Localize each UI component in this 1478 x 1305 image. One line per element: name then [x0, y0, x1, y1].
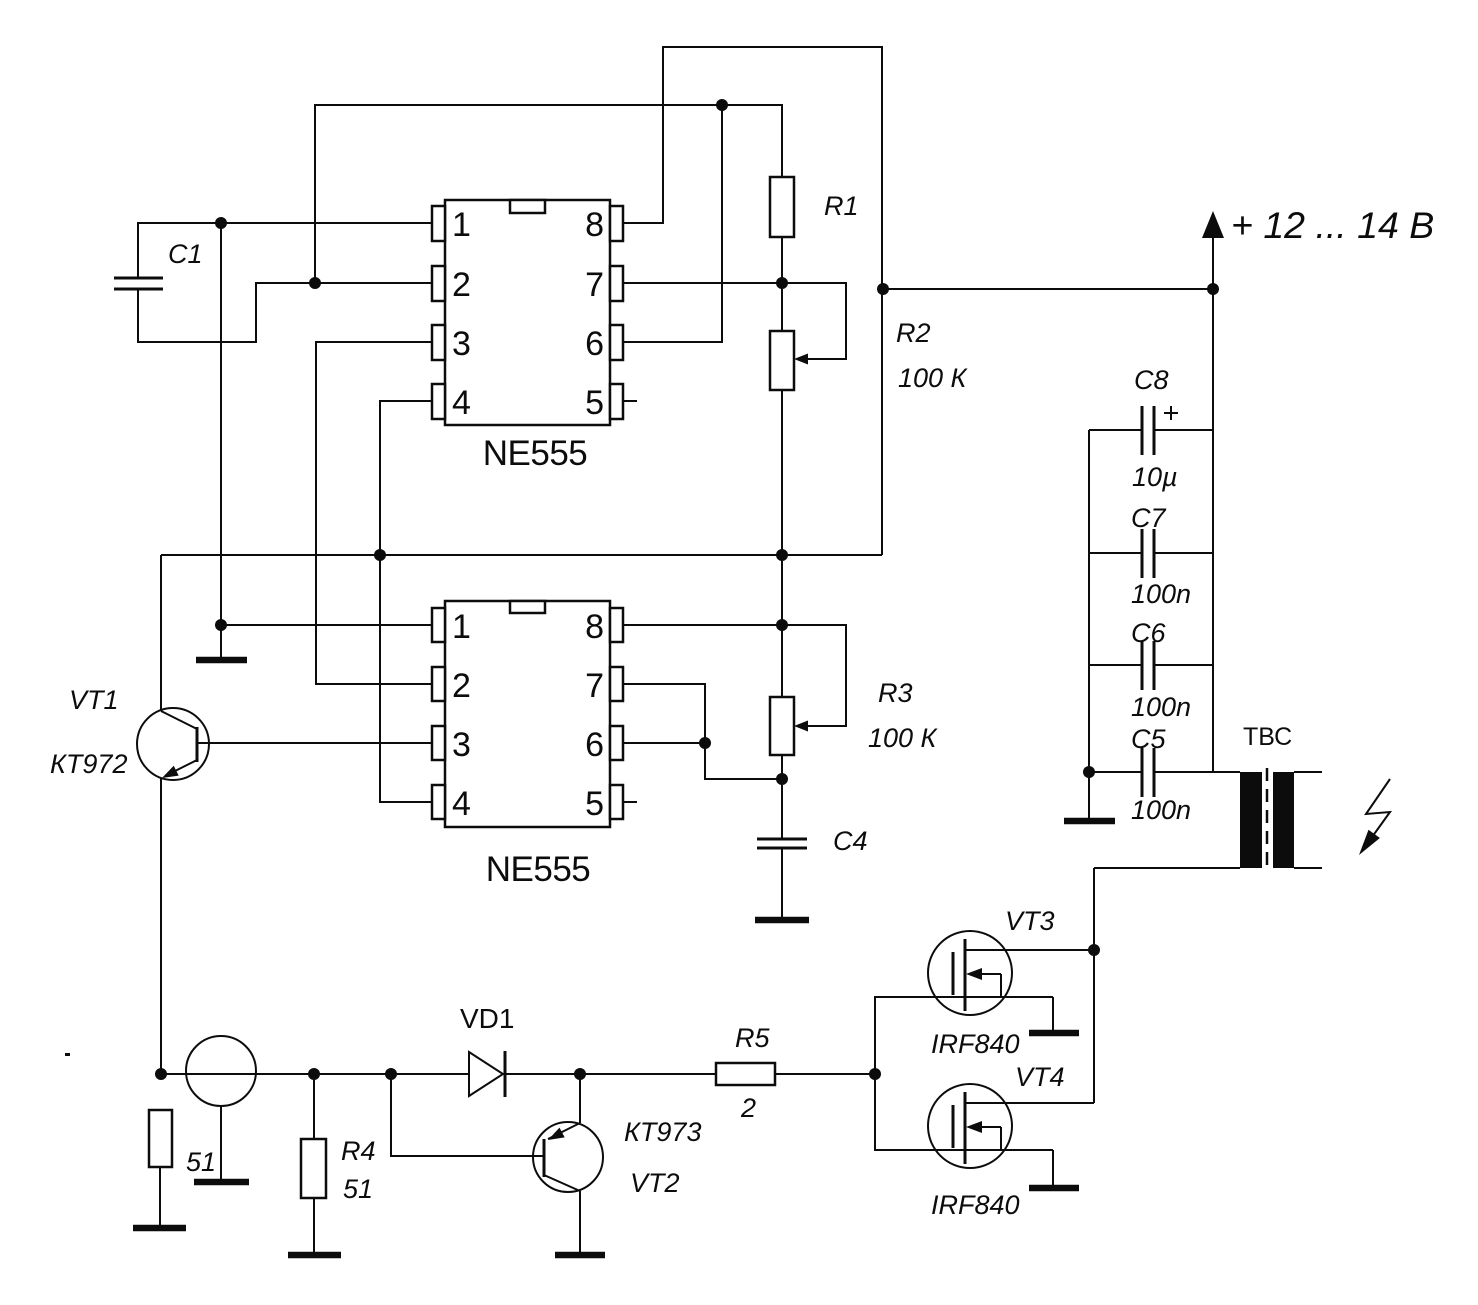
svg-text:R2: R2 — [896, 318, 931, 348]
wire gate node up to VT3 — [875, 997, 1053, 1074]
wire R2 bottom down through y=555 and pin8-lower to R3 — [781, 390, 783, 697]
svg-text:5: 5 — [585, 785, 604, 823]
svg-text:C1: C1 — [168, 239, 203, 269]
svg-text:КТ972: КТ972 — [50, 749, 127, 779]
svg-text:100 К: 100 К — [868, 723, 939, 753]
wire VT2 collector to ground — [579, 1191, 581, 1252]
wire R3 bottom to C4 — [781, 755, 783, 839]
svg-text:R5: R5 — [735, 1023, 770, 1053]
svg-text:C6: C6 — [1131, 618, 1166, 648]
wire drain rail to transformer — [1093, 868, 1095, 1103]
wire pin7-lower jog to R3 bottom — [622, 684, 782, 779]
svg-text:R3: R3 — [878, 678, 913, 708]
svg-text:2: 2 — [740, 1093, 756, 1123]
wire C4 to ground — [781, 848, 783, 917]
spark lightning arrow — [1362, 779, 1390, 851]
U1 pin stubs left — [432, 206, 445, 241]
transformer secondary wires — [1294, 771, 1322, 773]
svg-text:4: 4 — [452, 785, 471, 823]
wire pin1 junction down to ground — [220, 223, 222, 659]
svg-text:8: 8 — [585, 608, 604, 646]
svg-text:2: 2 — [452, 266, 471, 304]
wire 51 to ground — [159, 1167, 161, 1225]
svg-text:C4: C4 — [833, 826, 868, 856]
svg-text:3: 3 — [452, 325, 471, 363]
wire VT1 base to pin3-lower — [197, 742, 432, 744]
svg-text:C5: C5 — [1131, 724, 1166, 754]
ground under VT3 — [1029, 1030, 1079, 1037]
MOSFET VT3 IRF840 — [928, 931, 1012, 1015]
transformer TBC primary bottom wire — [1094, 867, 1240, 869]
IC U2 NE555 lower body — [445, 601, 610, 827]
svg-text:R4: R4 — [341, 1136, 376, 1166]
wire pin8-lower to R3 wiper jog — [622, 625, 846, 726]
potentiometer R3 100K — [770, 697, 794, 755]
svg-text:IRF840: IRF840 — [931, 1190, 1020, 1220]
wire main bottom line — [161, 1073, 469, 1075]
resistor R4 51 — [301, 1139, 326, 1198]
wire pin1-lower — [221, 624, 432, 626]
wire VT1 collector — [160, 555, 162, 711]
wire +12V rail vertical — [1212, 236, 1214, 772]
potentiometer R2 100K — [770, 331, 794, 390]
capacitor C6 100n — [1089, 664, 1141, 666]
wire +12V distribution line y=555 — [161, 554, 882, 556]
U2 pin stubs right — [610, 608, 623, 642]
capacitor C7 100n — [1089, 552, 1141, 554]
ground under pin1-lower junction — [196, 657, 247, 664]
wire VT2 emitter up — [579, 1074, 581, 1123]
svg-text:VT1: VT1 — [69, 685, 119, 715]
ground under circle — [194, 1179, 249, 1186]
MOSFET VT4 IRF840 — [928, 1084, 1012, 1168]
ground under VT2 — [555, 1252, 605, 1259]
transformer TBC windings — [1240, 772, 1262, 868]
wire pin7-upper to R1/R2 and wiper jog — [622, 283, 846, 359]
wire VT1 emitter down — [160, 778, 162, 1074]
svg-text:100n: 100n — [1131, 692, 1191, 722]
wire VT4 source to ground — [1052, 1150, 1054, 1186]
transformer core dashed — [1266, 768, 1269, 872]
svg-text:51: 51 — [186, 1147, 216, 1177]
wire R4 top — [313, 1074, 315, 1139]
svg-text:VD1: VD1 — [460, 1003, 514, 1034]
svg-text:100 К: 100 К — [898, 363, 969, 393]
svg-text:1: 1 — [452, 206, 471, 244]
capacitor C4 — [757, 838, 807, 841]
resistor R1 — [770, 177, 794, 237]
wire pin4-upper down to pin4-lower — [380, 401, 432, 802]
svg-text:5: 5 — [585, 384, 604, 422]
svg-text:NE555: NE555 — [483, 434, 588, 473]
capacitor C5 100n — [1089, 771, 1141, 773]
svg-text:VT2: VT2 — [630, 1168, 680, 1198]
svg-text:6: 6 — [585, 726, 604, 764]
wire +12V feed — [883, 288, 1213, 290]
svg-text:1: 1 — [452, 608, 471, 646]
ground under 51 — [133, 1225, 186, 1232]
svg-text:КТ973: КТ973 — [624, 1117, 701, 1147]
U1 pin stubs right — [610, 206, 623, 241]
svg-text:R1: R1 — [824, 191, 859, 221]
wire pin3-upper down to pin2-lower — [316, 342, 432, 684]
diode VD1 — [469, 1052, 503, 1096]
svg-text:7: 7 — [585, 266, 604, 304]
ground under R4 — [288, 1252, 341, 1259]
ground under C4 — [755, 917, 809, 924]
svg-text:10µ: 10µ — [1132, 462, 1178, 492]
svg-text:NE555: NE555 — [486, 850, 591, 889]
svg-text:100n: 100n — [1131, 795, 1191, 825]
transistor VT2 KT973 — [533, 1122, 603, 1192]
wire VT2 base jog — [391, 1074, 545, 1156]
IC U1 NE555 upper body — [445, 200, 610, 425]
ground under VT4 — [1029, 1185, 1079, 1192]
svg-text:100n: 100n — [1131, 579, 1191, 609]
lamp/sensor circle on emitter line — [186, 1036, 256, 1106]
svg-text:C8: C8 — [1134, 365, 1169, 395]
resistor R5 2 — [716, 1063, 775, 1085]
U1 pin5 stub line — [623, 400, 637, 402]
capacitor C8 10u — [1089, 429, 1141, 431]
svg-text:8: 8 — [585, 206, 604, 244]
wire top rail pin8-upper net — [622, 47, 882, 555]
svg-text:4: 4 — [452, 384, 471, 422]
wire pin6-upper to rail — [622, 105, 722, 342]
wire C1 bottom to pin2-upper — [138, 283, 432, 342]
svg-text:51: 51 — [343, 1174, 373, 1204]
wire pin6-lower — [622, 742, 705, 744]
svg-text:ТВС: ТВС — [1243, 723, 1292, 751]
ground under capacitor bus — [1064, 818, 1115, 825]
svg-text:2: 2 — [452, 667, 471, 705]
wire gate node down to VT4 — [875, 1074, 1053, 1150]
stray speck — [65, 1053, 70, 1056]
svg-text:6: 6 — [585, 325, 604, 363]
wire left capacitor bus — [1088, 430, 1090, 772]
wire R4 to ground — [313, 1198, 315, 1252]
resistor 51 left — [149, 1110, 172, 1167]
junction dots — [215, 217, 227, 229]
svg-text:VT3: VT3 — [1005, 906, 1055, 936]
power arrow +12...14V — [1202, 211, 1224, 238]
svg-text:C7: C7 — [1131, 503, 1166, 533]
U2 pin stubs left — [432, 608, 445, 642]
svg-text:7: 7 — [585, 667, 604, 705]
wire circle to ground — [220, 1106, 222, 1180]
wire second rail pins 2-6 net — [315, 105, 782, 283]
U2 pin5 stub line — [623, 801, 637, 803]
svg-text:3: 3 — [452, 726, 471, 764]
capacitor C1 — [114, 277, 163, 280]
transistor VT1 KT972 — [137, 708, 209, 780]
svg-text:VT4: VT4 — [1015, 1062, 1065, 1092]
wire C1 top to pin1-upper — [138, 223, 432, 278]
wire bus ground stub — [1088, 772, 1090, 818]
wire VT3 source to ground — [1052, 997, 1054, 1031]
svg-text:+ 12 ... 14 В: + 12 ... 14 В — [1231, 204, 1434, 246]
svg-text:IRF840: IRF840 — [931, 1029, 1020, 1059]
wire R1 bottom to R2 top — [781, 237, 783, 331]
